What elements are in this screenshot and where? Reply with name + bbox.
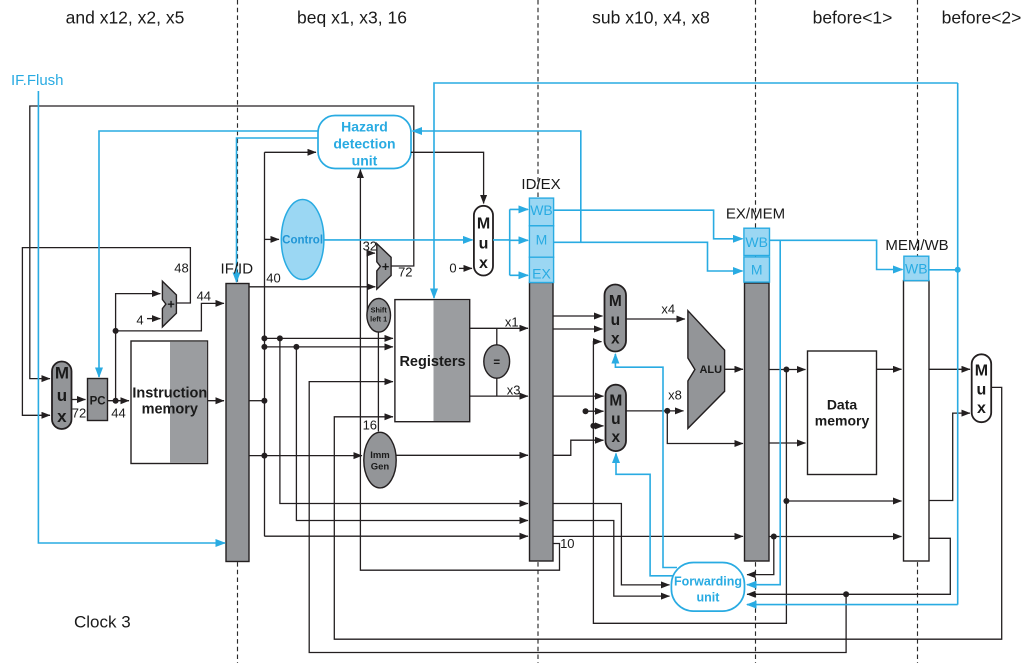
svg-text:M: M <box>536 232 548 248</box>
svg-text:u: u <box>479 236 489 253</box>
svg-text:Clock 3: Clock 3 <box>74 613 131 632</box>
svg-text:WB: WB <box>745 234 768 250</box>
junction dot read reg 1 <box>261 335 267 341</box>
wire immediate 16 shift vertical <box>377 332 379 432</box>
mux (ALU input A) <box>605 285 627 352</box>
wire instruction distribution vertical <box>264 152 266 536</box>
wire ID/EX WB to EX/MEM WB <box>554 210 743 239</box>
svg-text:WB: WB <box>530 202 553 218</box>
wire MEM/WB ALU result loop to wb mux <box>929 413 970 500</box>
wire rd 10 from ID/EX to EX/MEM <box>553 535 743 537</box>
junction dot mux B output <box>664 408 670 414</box>
svg-text:and x12, x2, x5: and x12, x2, x5 <box>66 8 185 28</box>
ALU <box>688 311 725 429</box>
mux (write back) <box>972 354 992 422</box>
svg-text:4: 4 <box>136 313 143 328</box>
wire rs1 number to forwarding unit <box>553 504 669 585</box>
stage divider dashed line 2 <box>537 0 539 663</box>
wire mux to PC <box>72 399 86 401</box>
svg-text:left 1: left 1 <box>370 315 387 324</box>
data memory <box>808 351 877 475</box>
stage divider dashed line 4 <box>917 0 919 663</box>
junction dot rs1 tap <box>277 335 283 341</box>
svg-text:M: M <box>55 364 69 383</box>
svg-text:x: x <box>611 331 620 348</box>
svg-text:EX: EX <box>532 266 551 282</box>
svg-text:16: 16 <box>363 418 377 433</box>
wire instruction 40 to branch adder <box>249 286 375 288</box>
mux (control zero) <box>474 206 493 276</box>
junction dot mux B input 3 <box>590 423 596 429</box>
wire RegWrite to registers <box>434 83 958 298</box>
pipeline register ID/EX with WB M EX fields <box>529 198 553 561</box>
shift left 1 unit <box>367 299 391 333</box>
register PC <box>88 379 108 421</box>
junction dot ALU result <box>783 367 789 373</box>
wire read data 2 x3 <box>470 395 528 397</box>
junction dot rs2 tap <box>293 344 299 350</box>
wire MEM/WB RegWrite vertical <box>957 83 959 605</box>
registers file <box>395 300 470 422</box>
wire instruction to Imm Gen <box>249 455 362 457</box>
wire comparator tap top <box>496 328 498 345</box>
hazard detection unit <box>318 116 411 169</box>
junction dot write register loop <box>843 591 849 597</box>
svg-text:PC: PC <box>90 396 106 408</box>
pipeline register MEM/WB with WB field <box>904 256 930 561</box>
wire rd number to ID/EX <box>264 535 528 537</box>
svg-text:Imm: Imm <box>370 450 390 461</box>
svg-text:48: 48 <box>174 261 188 276</box>
wire rd from EX/MEM to MEM/WB <box>769 536 901 538</box>
wire MEM/WB read data to wb mux <box>929 368 970 370</box>
wire read data 1 x1 <box>470 327 528 329</box>
wire EX/MEM RegWrite down to forwarding unit <box>747 240 780 584</box>
svg-text:u: u <box>611 411 620 428</box>
wire ID/EX rd to hazard unit <box>360 170 559 571</box>
wire PC value 44 to IF/ID <box>116 303 224 331</box>
junction dot mux B forward stub <box>583 408 589 414</box>
wire mux B output x8 to ALU <box>626 410 684 412</box>
wire ForwardB control to mux B <box>616 454 673 576</box>
wire hazard unit to zero mux <box>411 152 484 203</box>
svg-text:before<1>: before<1> <box>813 8 893 28</box>
wire constant 4 to adder <box>147 318 160 320</box>
wire MEM/WB RegWrite to forwarding unit <box>747 604 958 606</box>
wire MEM/WB rd to forwarding unit <box>747 538 950 594</box>
svg-text:M: M <box>975 363 988 380</box>
wire ID/EX to mux A input 1 <box>553 315 602 317</box>
mux (ALU input B) <box>606 385 627 451</box>
wire branch target 72 to PC mux <box>30 106 414 379</box>
wire Imm Gen output to ID/EX <box>396 454 528 456</box>
wire instruction to hazard unit <box>265 151 317 153</box>
svg-text:x3: x3 <box>507 383 521 398</box>
wire EX/MEM ALU result forwarding loop <box>593 342 786 624</box>
wire zero mux to ID/EX control fields <box>493 209 528 275</box>
wire comparator tap bottom <box>496 378 498 396</box>
wire rs2 number to forwarding unit <box>553 521 669 597</box>
svg-text:x4: x4 <box>661 302 675 317</box>
label 0 arrow <box>459 267 472 269</box>
wire MEM/WB WB output junction <box>929 269 958 271</box>
junction dot PC out <box>113 398 119 404</box>
svg-text:0: 0 <box>449 261 456 276</box>
junction dot read reg 2 <box>261 344 267 350</box>
svg-text:unit: unit <box>352 153 378 169</box>
junction dot instruction out <box>261 398 267 404</box>
svg-text:M: M <box>609 393 622 410</box>
svg-text:beq x1, x3, 16: beq x1, x3, 16 <box>297 8 407 28</box>
svg-text:Forwarding: Forwarding <box>674 575 742 589</box>
svg-text:M: M <box>609 293 622 310</box>
wire read register 1 <box>264 337 393 339</box>
wire instruction stub from IF/ID <box>249 400 264 402</box>
svg-text:sub x10, x4, x8: sub x10, x4, x8 <box>592 8 710 28</box>
svg-text:before<2>: before<2> <box>942 8 1022 28</box>
wire immediate from ID/EX to mux B <box>553 440 603 455</box>
svg-text:detection: detection <box>333 136 395 152</box>
svg-text:Hazard: Hazard <box>341 119 388 135</box>
wire instruction to control <box>265 238 280 240</box>
wire ID/EX MemRead to hazard unit <box>413 131 581 242</box>
svg-text:ID/EX: ID/EX <box>521 176 560 193</box>
stage divider dashed line 1 <box>237 0 239 663</box>
wire ForwardA control to mux A <box>615 354 677 568</box>
svg-text:x: x <box>479 255 488 272</box>
wire shift left to branch adder <box>367 253 375 312</box>
svg-text:x: x <box>977 400 986 417</box>
pipeline register IF/ID <box>226 284 249 562</box>
instruction memory <box>131 341 208 464</box>
wire PC value up to adder <box>116 294 161 401</box>
svg-text:unit: unit <box>697 591 721 605</box>
svg-text:Control: Control <box>282 235 323 247</box>
wire PC to instruction memory <box>108 400 130 402</box>
wire ID/EX to mux B input 1 <box>553 395 603 397</box>
wire forwarded stub mux B input 3 <box>593 425 603 427</box>
mux (PC source) <box>52 362 72 430</box>
junction dot MEM/WB WB out <box>955 267 961 273</box>
svg-text:10: 10 <box>560 536 574 551</box>
wire ID/EX M to EX/MEM M <box>554 242 743 271</box>
svg-text:memory: memory <box>142 402 198 418</box>
svg-text:Data: Data <box>827 397 858 413</box>
stage divider dashed line 3 <box>755 0 757 663</box>
svg-text:x: x <box>611 429 620 446</box>
equality comparator = <box>484 345 510 378</box>
adder PC+4 <box>162 281 176 327</box>
wire rs1 number down to ID/EX <box>280 338 528 503</box>
svg-text:IF.Flush: IF.Flush <box>11 72 64 89</box>
svg-text:EX/MEM: EX/MEM <box>726 206 785 223</box>
pipeline register EX/MEM with WB M fields <box>744 228 770 561</box>
svg-text:+: + <box>167 297 175 312</box>
wire PC+4 48 to PC mux <box>22 248 190 416</box>
wire read data to MEM/WB <box>877 368 902 370</box>
wire ID/EX to mux A input 2 <box>553 328 602 330</box>
branch adder <box>377 244 391 290</box>
svg-text:u: u <box>57 386 67 405</box>
wire write register number loop to registers <box>309 382 846 653</box>
wire forwarded stub mux B input 2 <box>586 410 604 412</box>
junction dot immgen line <box>261 453 267 459</box>
junction dot PC branch <box>113 328 119 334</box>
svg-text:44: 44 <box>197 289 211 304</box>
wire instruction memory to IF/ID <box>208 400 225 402</box>
wire EX/MEM WB to MEM/WB WB <box>770 240 903 269</box>
svg-text:32: 32 <box>363 239 377 254</box>
wire rs2 number down to ID/EX <box>296 347 528 521</box>
wire PCWrite from hazard unit to PC <box>99 131 318 377</box>
wire ALU result bypass to MEM/WB <box>786 500 901 502</box>
svg-text:IF/ID: IF/ID <box>221 261 254 278</box>
svg-text:u: u <box>977 382 987 399</box>
wire ALU output to EX/MEM <box>725 368 743 370</box>
svg-text:u: u <box>611 312 620 329</box>
svg-text:WB: WB <box>905 261 928 277</box>
svg-text:ALU: ALU <box>699 364 722 376</box>
wire write back data loop to registers <box>334 387 1001 639</box>
wire IF.Flush to IF/ID <box>38 91 225 543</box>
svg-text:memory: memory <box>815 413 870 429</box>
wire write data to data memory <box>769 442 805 444</box>
forwarding unit <box>671 563 744 612</box>
wire mux A output x4 to ALU <box>626 318 685 320</box>
control unit <box>281 200 324 280</box>
svg-text:Gen: Gen <box>371 462 390 473</box>
wire control output to zero mux <box>324 239 473 241</box>
junction dot ALU result bypass <box>783 498 789 504</box>
svg-text:44: 44 <box>111 406 125 421</box>
svg-text:x: x <box>57 407 67 426</box>
wire EX/MEM rd down to forwarding unit <box>747 537 774 575</box>
Imm Gen unit <box>364 432 396 488</box>
svg-text:MEM/WB: MEM/WB <box>885 237 948 254</box>
svg-text:x1: x1 <box>505 315 519 330</box>
svg-text:x8: x8 <box>668 388 682 403</box>
svg-text:M: M <box>477 216 490 233</box>
svg-text:=: = <box>493 357 500 369</box>
svg-text:72: 72 <box>398 265 412 280</box>
junction dot EX/MEM rd <box>771 534 777 540</box>
wire address to data memory <box>769 369 805 371</box>
svg-text:Registers: Registers <box>399 354 465 370</box>
wire store data to EX/MEM <box>667 411 743 444</box>
svg-text:40: 40 <box>266 270 280 285</box>
svg-text:Shift: Shift <box>371 306 388 315</box>
svg-text:M: M <box>751 262 763 278</box>
wire IF/ID write from hazard unit <box>237 138 319 282</box>
svg-text:+: + <box>382 259 390 274</box>
svg-text:Instruction: Instruction <box>132 386 207 402</box>
wire read register 2 <box>264 346 393 348</box>
svg-text:72: 72 <box>72 406 86 421</box>
